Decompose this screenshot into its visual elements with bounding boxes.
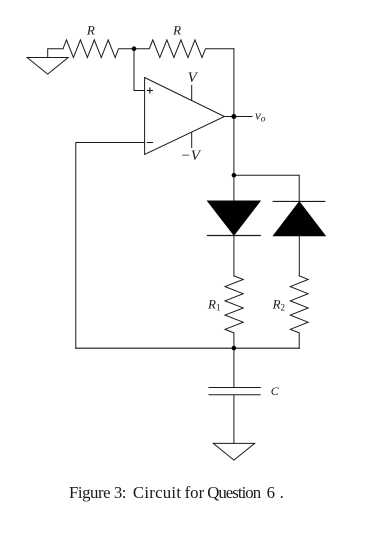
svg-text:−V: −V <box>181 148 202 164</box>
svg-text:R: R <box>172 22 181 37</box>
svg-text:vo: vo <box>255 108 266 125</box>
svg-text:R2: R2 <box>272 297 285 313</box>
svg-text:R: R <box>86 22 95 37</box>
svg-text:C: C <box>271 384 280 398</box>
svg-text:Figure 3:CircuitforQuestion6.: Figure 3:CircuitforQuestion6. <box>69 483 284 502</box>
svg-text:R1: R1 <box>207 297 220 313</box>
svg-text:V: V <box>188 70 199 86</box>
